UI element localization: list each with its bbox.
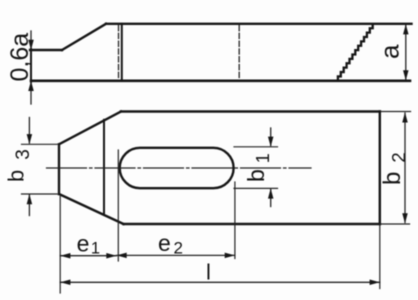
- svg-text:l: l: [206, 260, 211, 285]
- extension line at slot right end: [234, 182, 236, 259]
- dimension 0,6a top arrowhead: [28, 40, 34, 50]
- low top edge (0,6a section): [30, 49, 62, 51]
- break line (serrated): [335, 24, 373, 81]
- b2 dim line: [404, 113, 406, 223]
- top edge with extension: [106, 23, 412, 25]
- svg-text:e1: e1: [77, 230, 100, 257]
- b2 dim bottom arrowhead: [402, 213, 408, 223]
- plan bottom edge: [124, 223, 380, 226]
- bottom edge with extension: [31, 80, 410, 83]
- svg-text:b3: b3: [4, 149, 35, 182]
- b3 dim top arrowhead: [27, 134, 33, 144]
- dimension a bottom arrowhead: [403, 70, 409, 80]
- e2 dim line: [117, 254, 235, 256]
- b1 bottom extension line: [234, 187, 278, 189]
- svg-text:a: a: [375, 44, 405, 59]
- b3 dim bottom shaft: [28, 195, 30, 216]
- b3 dim top shaft: [28, 118, 30, 144]
- left end edge: [58, 144, 60, 194]
- b1 dim bottom arrowhead: [268, 188, 274, 198]
- svg-text:e2: e2: [158, 230, 183, 258]
- plan top edge: [121, 110, 380, 113]
- hidden slot left end (dashed): [118, 26, 120, 80]
- l dim line: [60, 281, 380, 283]
- nose bottom slant: [59, 194, 124, 224]
- nose top slant: [59, 112, 121, 145]
- l right arrowhead: [370, 280, 380, 286]
- hidden slot right end (dashed): [238, 26, 240, 80]
- dimension 0,6a line top shaft: [30, 31, 32, 49]
- plan right edge: [379, 112, 381, 225]
- plan bottom edge extension: [380, 223, 410, 225]
- centerline: [47, 167, 312, 169]
- plan top edge extension: [380, 111, 411, 113]
- extension line at right end: [379, 224, 381, 289]
- svg-text:0,6a: 0,6a: [6, 33, 34, 82]
- slot (elongated hole): [120, 148, 234, 188]
- slope edge: [62, 24, 106, 50]
- b3 bottom extension line: [22, 193, 58, 195]
- slope crease edge: [103, 120, 105, 215]
- b3 dim bottom arrowhead: [27, 194, 33, 204]
- b2 dim top arrowhead: [402, 112, 408, 122]
- b1 dim top shaft: [270, 128, 272, 146]
- e2 left arrowhead: [117, 253, 127, 259]
- e1 left arrowhead: [60, 253, 70, 259]
- dimension a line: [405, 25, 407, 80]
- dimension a top arrowhead: [403, 24, 409, 34]
- b1 dim top arrowhead: [268, 137, 274, 147]
- e1 dim line: [60, 255, 116, 257]
- l left arrowhead: [60, 280, 70, 286]
- left end face edge: [30, 49, 32, 82]
- slope-end vertical edge: [121, 24, 123, 81]
- dimension 0,6a bottom shaft: [30, 82, 32, 104]
- extension line at slot left end: [117, 150, 119, 261]
- b1 dim bottom shaft: [270, 190, 272, 207]
- extension line at left tip: [59, 197, 61, 294]
- b1 top extension line: [234, 146, 278, 148]
- e2 right arrowhead: [225, 253, 235, 259]
- e1 right arrowhead: [106, 253, 116, 259]
- dimension 0,6a bottom arrowhead: [28, 81, 34, 91]
- b3 top extension line: [22, 143, 58, 145]
